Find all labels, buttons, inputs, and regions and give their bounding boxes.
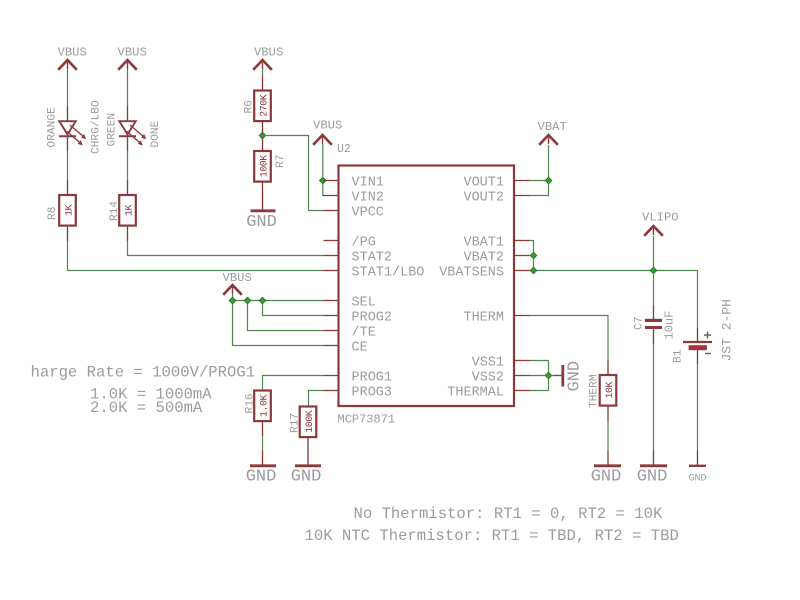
junction VBAT (545, 177, 552, 184)
pin leads R17 (307, 437, 309, 452)
svg-text:VIN2: VIN2 (352, 190, 384, 205)
pin lead GND (R17) (307, 451, 309, 466)
junction VBAT2 (530, 252, 537, 259)
wire THERM pin to resistor (529, 316, 608, 376)
pin leads B1 (697, 328, 699, 364)
net VBUS supply arrow (LED ORANGE branch) (58, 46, 87, 70)
pin lead GND (THERM) (607, 451, 609, 466)
label R6 (244, 100, 256, 113)
svg-text:1K: 1K (64, 205, 75, 217)
pin leads C7 (653, 305, 655, 344)
junction VBUS row dot 1 (229, 297, 236, 304)
label R17 (290, 413, 302, 433)
pin /PG (left) (324, 235, 376, 250)
svg-text:100K: 100K (305, 410, 316, 433)
wire battery to GND (697, 350, 699, 466)
value 1K (R14) (124, 205, 135, 217)
wire LED1 cathode to R8 (67, 136, 69, 195)
wire VBUS to R6 (262, 69, 264, 91)
label R8 (47, 207, 59, 220)
ground GND (R16) (246, 466, 277, 487)
pin VOUT2 (right) (463, 190, 529, 205)
svg-text:VBAT2: VBAT2 (463, 250, 504, 265)
svg-text:VIN1: VIN1 (352, 175, 384, 190)
svg-text:VSS1: VSS1 (472, 355, 504, 370)
svg-text:DONE: DONE (150, 120, 162, 147)
svg-text:1.0K: 1.0K (259, 395, 270, 418)
svg-text:PROG1: PROG1 (352, 370, 393, 385)
pin THERM (right) (463, 310, 529, 325)
LED LED1 (ORANGE) (59, 121, 86, 145)
svg-text:R8: R8 (47, 207, 59, 220)
pin lead GND (VSS) (553, 375, 562, 377)
note charge rate line 1 (31, 364, 256, 382)
net VBUS supply arrow (LED GREEN branch) (118, 46, 147, 70)
svg-text:PROG3: PROG3 (352, 385, 393, 400)
label GREEN (107, 113, 119, 147)
wire VOUT1 to VBAT (529, 180, 549, 182)
pin leads R6 (262, 76, 264, 135)
svg-text:/PG: /PG (352, 235, 376, 250)
wire VSS2 stub (529, 375, 549, 377)
LED LED2 (GREEN) (119, 121, 146, 145)
wire PROG1 to R16 (263, 376, 324, 391)
wire VBUS to LED2 anode (127, 69, 129, 121)
svg-text:MCP73871: MCP73871 (338, 413, 396, 427)
wire R17 to GND (307, 437, 309, 465)
wire VLIPO stem (653, 236, 655, 271)
value 1K (R8) (64, 205, 75, 217)
label JST 2-PH (720, 299, 735, 361)
pin VIN2 (left) (324, 190, 384, 205)
svg-text:U2: U2 (337, 143, 351, 156)
svg-text:PROG2: PROG2 (352, 310, 393, 325)
resistor R16 (254, 391, 271, 422)
pin VBAT1 (right) (463, 235, 529, 250)
svg-text:R14: R14 (109, 201, 121, 221)
wire LED2 cathode to R14 (127, 136, 129, 195)
pin PROG1 (left) (324, 370, 393, 385)
svg-text:/TE: /TE (352, 325, 376, 340)
junction VSS2 (545, 372, 552, 379)
resistor THERM (600, 375, 617, 406)
pin VSS2 (right) (472, 370, 529, 385)
ground GND (R17) (291, 466, 322, 487)
svg-text:R7: R7 (275, 155, 287, 168)
pin VIN1 (left) (324, 175, 384, 190)
pin THERMAL (right) (447, 385, 529, 400)
wire VSS vertical (548, 361, 550, 391)
ground GND (THERM) (591, 466, 622, 487)
pin leads LED1 (67, 106, 69, 151)
svg-text:THERMAL: THERMAL (447, 385, 504, 400)
net VBUS supply arrow (SEL/PROG2/TE/CE branch) (223, 271, 252, 295)
svg-text:VLIPO: VLIPO (642, 211, 679, 225)
label THERM (589, 374, 601, 408)
wire THERMAL stub (529, 390, 549, 392)
svg-text:CE: CE (352, 340, 368, 355)
pin SEL (left) (324, 295, 376, 310)
wire VBAT arrow stem (548, 145, 550, 181)
label R7 (275, 155, 287, 168)
svg-text:ORANGE: ORANGE (47, 107, 59, 148)
svg-text:R17: R17 (290, 413, 302, 433)
svg-text:GND: GND (591, 468, 622, 487)
wire VLIPO node to C7 (653, 271, 655, 320)
svg-text:VBUS: VBUS (118, 46, 147, 60)
svg-text:VPCC: VPCC (352, 205, 384, 220)
pin lead GND (B1) (697, 451, 699, 466)
value 1.0K (R16) (259, 395, 270, 418)
svg-text:VBUS: VBUS (313, 119, 342, 133)
wire C7 to GND (653, 329, 655, 466)
svg-text:2.0K = 500mA: 2.0K = 500mA (90, 399, 203, 417)
wire VBATSENS bus (529, 270, 698, 272)
ground GND (C7) (637, 466, 668, 487)
wire VSS to GND (549, 375, 562, 377)
svg-text:VBUS: VBUS (58, 46, 87, 60)
pin STAT1/LBO (left) (324, 265, 425, 280)
net VBUS supply arrow (R6 branch) (253, 46, 283, 70)
svg-text:GND: GND (291, 468, 322, 487)
pin VOUT1 (right) (463, 175, 529, 190)
svg-text:VOUT1: VOUT1 (463, 175, 504, 190)
wire R6 to R7 (262, 121, 264, 151)
svg-text:10K: 10K (605, 382, 616, 399)
svg-text:10K NTC Thermistor: RT1 = TBD,: 10K NTC Thermistor: RT1 = TBD, RT2 = TBD (305, 527, 679, 545)
label R16 (245, 393, 257, 413)
pin CE (left) (324, 340, 368, 355)
svg-text:CHRG/LBO: CHRG/LBO (91, 100, 103, 154)
wire R16 to GND (262, 421, 264, 465)
pin leads R14 (127, 180, 129, 241)
svg-text:No Thermistor: RT1 = 0, RT2 =: No Thermistor: RT1 = 0, RT2 = 10K (354, 505, 663, 523)
svg-text:harge Rate = 1000V/PROG1: harge Rate = 1000V/PROG1 (31, 364, 256, 382)
pin VSS1 (right) (472, 355, 529, 370)
wire R14 to STAT2 (128, 226, 324, 256)
resistor R8 (59, 195, 76, 226)
svg-text:SEL: SEL (352, 295, 376, 310)
ground GND (VSS, rotated) (563, 361, 585, 392)
svg-text:GND: GND (688, 474, 706, 485)
label CHRG/LBO (91, 100, 103, 154)
label U2 (337, 143, 351, 156)
junction VBUS row dot 2 (244, 297, 251, 304)
wire VSS1 stub (529, 360, 549, 362)
pin PROG3 (left) (324, 385, 393, 400)
label DONE (150, 120, 162, 147)
label ORANGE (47, 107, 59, 148)
label R14 (109, 201, 121, 221)
wire VOUT2 to VBAT (529, 181, 549, 196)
pin lead GND (C7) (653, 451, 655, 466)
wire VBAT2 stub (529, 255, 534, 257)
value 10K (THERM) (605, 382, 616, 399)
net VBUS supply arrow (U2 VIN branch) (313, 119, 342, 145)
note thermistor line 2 (305, 527, 679, 545)
wire R8 to STAT1/LBO (68, 226, 324, 271)
ground GND (battery) (688, 466, 706, 485)
svg-text:VBUS: VBUS (254, 46, 283, 60)
svg-text:JST 2-PH: JST 2-PH (720, 299, 735, 361)
pin VPCC (left) (324, 205, 384, 220)
note thermistor line 1 (354, 505, 663, 523)
svg-text:100K: 100K (259, 155, 270, 178)
pin lead GND (R7) (262, 196, 264, 210)
resistor R14 (119, 195, 136, 226)
svg-text:VBAT: VBAT (538, 120, 567, 134)
resistor R6 (254, 91, 271, 122)
wire PROG3 to R17 (309, 391, 324, 407)
svg-text:VOUT2: VOUT2 (463, 190, 504, 205)
label MCP73871 (338, 413, 396, 427)
wire divider node to VPCC (263, 136, 324, 211)
svg-text:1K: 1K (124, 205, 135, 217)
junction VLIPO node (650, 267, 657, 274)
pin leads LED2 (127, 106, 129, 151)
ground GND (R7) (246, 211, 277, 232)
resistor R7 (254, 151, 271, 182)
wire to /TE (248, 301, 324, 331)
svg-text:STAT2: STAT2 (352, 250, 393, 265)
svg-text:10uF: 10uF (663, 311, 677, 340)
svg-text:THERM: THERM (463, 310, 504, 325)
note charge rate line 2 (90, 385, 212, 403)
wire VBAT1 stub (529, 241, 534, 271)
label C7 (634, 317, 646, 330)
svg-text:STAT1/LBO: STAT1/LBO (352, 265, 425, 280)
resistor R17 (300, 407, 317, 438)
wire VBUS to LED1 anode (67, 69, 69, 121)
svg-text:R6: R6 (244, 100, 256, 113)
label B1 (673, 349, 685, 363)
pin /TE (left) (324, 325, 376, 340)
wire VBUS to VIN1/VIN2 (323, 144, 324, 196)
pin lead GND (R16) (262, 451, 264, 466)
value 270K (R6) (259, 94, 270, 117)
svg-text:B1: B1 (673, 349, 685, 363)
pin VBATSENS (right) (439, 265, 529, 280)
svg-text:C7: C7 (634, 317, 646, 330)
pin leads R7 (262, 137, 264, 196)
svg-text:THERM: THERM (589, 374, 601, 408)
junction R6/R7 node (259, 132, 266, 139)
pin leads R8 (67, 180, 69, 241)
wire VBUS row to SEL (233, 294, 324, 301)
pin VBAT2 (right) (463, 250, 529, 265)
value 100K (R7) (259, 155, 270, 178)
svg-text:GND: GND (566, 361, 585, 392)
capacitor C7 (645, 319, 662, 329)
value 10uF (C7) (663, 311, 677, 340)
svg-text:GND: GND (637, 468, 668, 487)
pin leads R16 (262, 421, 264, 436)
wire THERM resistor to GND (607, 406, 609, 466)
svg-text:VBUS: VBUS (223, 271, 252, 285)
svg-text:R16: R16 (245, 393, 257, 413)
svg-text:GND: GND (246, 468, 277, 487)
svg-text:VBATSENS: VBATSENS (439, 265, 504, 280)
svg-text:GND: GND (246, 213, 277, 232)
wire R7 to GND (262, 182, 264, 210)
battery B1 (683, 332, 712, 354)
pin leads THERM resistor (607, 360, 609, 421)
junction VIN1 (320, 177, 327, 184)
pin STAT2 (left) (324, 250, 393, 265)
note charge rate line 3 (90, 399, 203, 417)
value 100K (R17) (305, 410, 316, 433)
svg-text:GREEN: GREEN (107, 113, 119, 147)
svg-text:VBAT1: VBAT1 (463, 235, 504, 250)
net VLIPO supply arrow (642, 211, 679, 236)
junction VBATSENS (530, 267, 537, 274)
svg-text:270K: 270K (259, 94, 270, 117)
net VBAT supply arrow (538, 120, 567, 145)
svg-text:VSS2: VSS2 (472, 370, 504, 385)
junction VBUS row dot 3 (259, 297, 266, 304)
op-amp U2 MCP73871 body (339, 166, 515, 407)
wire to PROG2 (263, 301, 324, 316)
wire to CE (233, 301, 324, 346)
wire VBATSENS to battery (697, 271, 699, 343)
pin PROG2 (left) (324, 310, 393, 325)
